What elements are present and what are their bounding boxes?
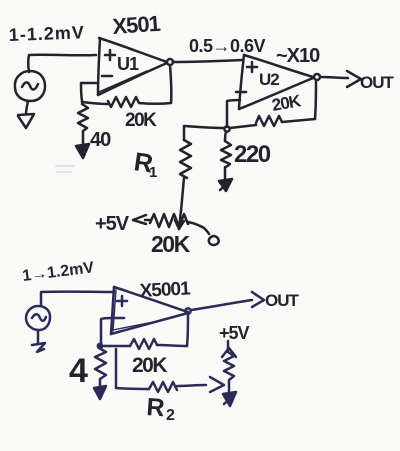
svg-text:220: 220 [234, 141, 271, 168]
svg-text:1: 1 [149, 164, 157, 181]
svg-text:OUT: OUT [360, 73, 395, 92]
svg-text:40: 40 [90, 129, 111, 151]
svg-text:~X10: ~X10 [276, 45, 320, 67]
svg-text:4: 4 [69, 352, 88, 390]
svg-text:U1: U1 [117, 54, 139, 74]
svg-text:R: R [146, 393, 166, 422]
svg-text:20K: 20K [125, 110, 157, 131]
svg-text:OUT: OUT [265, 291, 300, 310]
svg-text:+5V: +5V [219, 323, 250, 343]
svg-text:1-1.2mV: 1-1.2mV [8, 22, 85, 45]
svg-text:+5V: +5V [95, 213, 130, 235]
svg-text:20K: 20K [132, 354, 167, 377]
svg-text:0.5→0.6V: 0.5→0.6V [189, 36, 266, 56]
svg-text:X501: X501 [112, 11, 162, 39]
svg-text:20K: 20K [151, 231, 191, 257]
svg-text:X5001: X5001 [139, 278, 191, 302]
svg-text:U2: U2 [259, 70, 279, 89]
svg-text:2: 2 [166, 407, 175, 424]
